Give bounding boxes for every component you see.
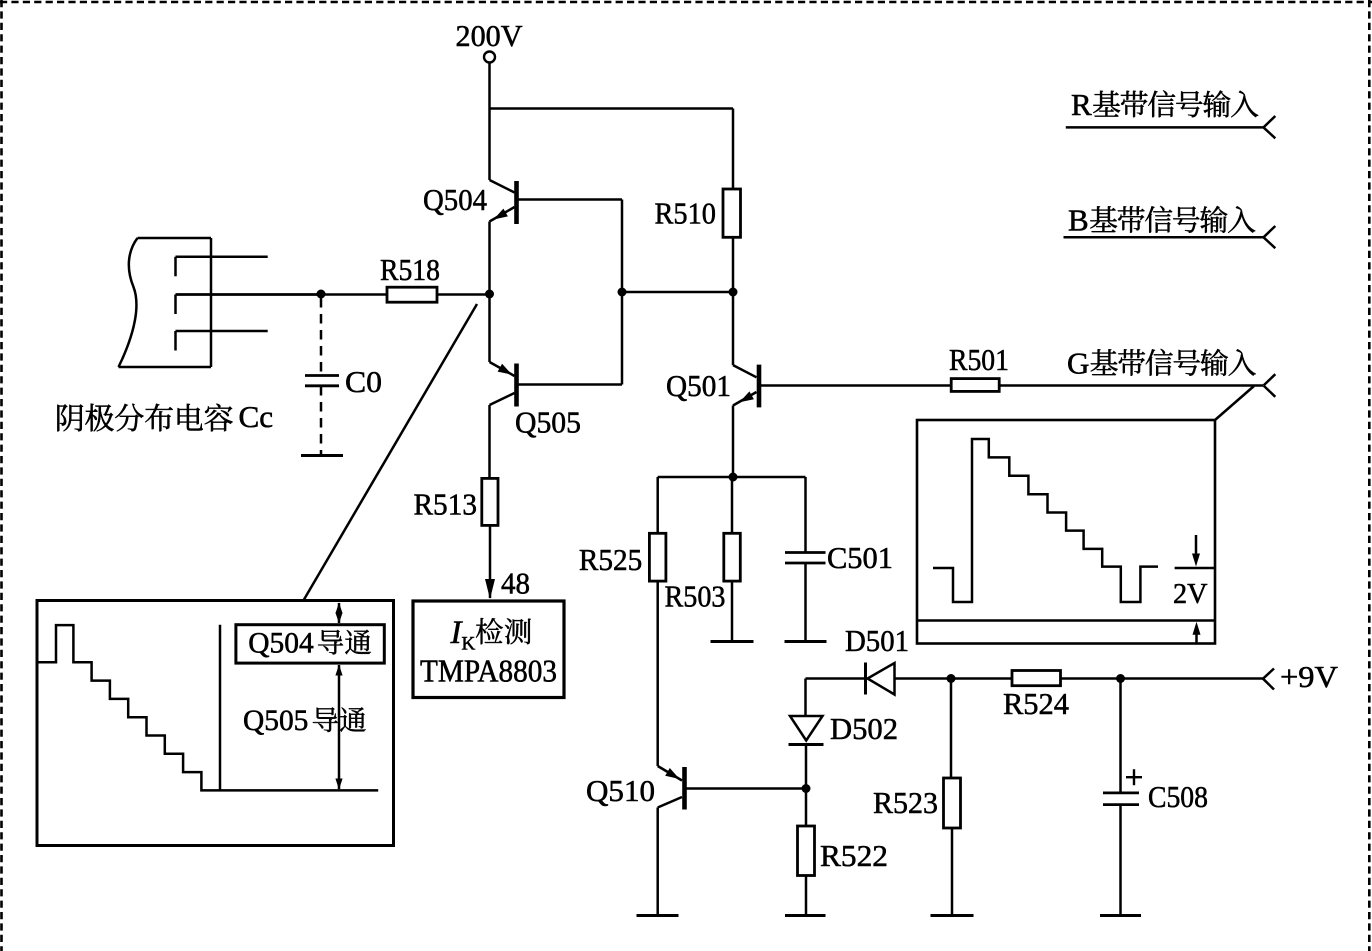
- svg-text:C0: C0: [345, 364, 382, 399]
- svg-text:Q504: Q504: [423, 182, 487, 217]
- svg-text:Cc: Cc: [239, 399, 274, 434]
- svg-text:Q505: Q505: [243, 705, 308, 737]
- svg-text:Q505: Q505: [515, 405, 581, 440]
- svg-text:2V: 2V: [1173, 579, 1208, 610]
- svg-text:R501: R501: [949, 342, 1009, 377]
- svg-text:C501: C501: [827, 540, 893, 575]
- svg-text:D502: D502: [830, 711, 898, 746]
- svg-text:Q504: Q504: [248, 628, 314, 660]
- svg-text:D501: D501: [845, 623, 909, 658]
- svg-text:K: K: [462, 634, 476, 655]
- svg-text:TMPA8803: TMPA8803: [420, 653, 557, 689]
- svg-text:48: 48: [501, 566, 530, 601]
- svg-text:Q501: Q501: [666, 368, 731, 403]
- svg-text:R513: R513: [414, 487, 478, 522]
- svg-text:R510: R510: [655, 196, 717, 231]
- svg-text:C508: C508: [1148, 779, 1208, 814]
- svg-text:200V: 200V: [456, 18, 524, 53]
- svg-text:B: B: [1068, 203, 1089, 238]
- svg-text:R522: R522: [820, 838, 888, 873]
- svg-text:R524: R524: [1003, 686, 1069, 721]
- svg-text:R518: R518: [380, 252, 440, 287]
- svg-text:R523: R523: [873, 785, 938, 820]
- svg-text:R: R: [1071, 87, 1092, 122]
- svg-text:R525: R525: [579, 542, 642, 577]
- svg-text:+9V: +9V: [1280, 659, 1339, 694]
- svg-text:Q510: Q510: [586, 773, 655, 808]
- svg-text:R503: R503: [665, 579, 726, 614]
- svg-text:G: G: [1067, 346, 1089, 381]
